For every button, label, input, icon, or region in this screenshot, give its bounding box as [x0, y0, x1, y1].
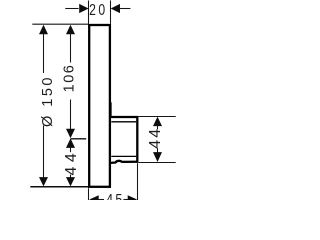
- node: dim 45 left arrowhead: [89, 195, 98, 204]
- plate right edge small step: [110, 102, 112, 116]
- wire: top-left extension line above plate (x=89): [88, 1, 90, 24]
- node: dim 44 left top arrowhead: [66, 138, 75, 148]
- svg-text:44: 44: [147, 127, 164, 149]
- wire: left extension line at plate top (y=24.2): [32, 23, 88, 25]
- svg-text:Ø 150: Ø 150: [40, 75, 56, 127]
- wire: dim 106 line upper segment: [70, 34, 72, 63]
- wire: dim 44 right lower segment: [157, 148, 159, 152]
- svg-text:106: 106: [61, 64, 77, 93]
- wire: dim 106 line lower segment: [70, 100, 72, 130]
- wire: dim 44 left line lower segment: [70, 175, 72, 178]
- wire: bottom extension line below plate (x=88.9): [88, 188, 90, 200]
- wire: dim 44 right upper segment: [157, 126, 159, 130]
- wire: dim 150 line upper segment: [43, 34, 45, 73]
- node: dim 106 top arrowhead: [66, 25, 75, 35]
- handle inner groove line bottom: [111, 155, 136, 157]
- node: dim 44 left bottom arrowhead: [66, 177, 75, 186]
- wire: dim 45 line left segment: [99, 199, 105, 201]
- node: dim 150 bottom arrowhead: [39, 177, 48, 186]
- svg-text:0: 0: [98, 2, 105, 20]
- svg-text:44: 44: [63, 149, 80, 176]
- handle outline (side view): [111, 117, 138, 163]
- node: dim 44 right bottom arrowhead: [153, 152, 162, 162]
- node: dim 20 right arrowhead: [111, 4, 120, 13]
- node: dim 20 left arrowhead: [79, 4, 88, 13]
- wire: right extension line at handle bottom (y=162.1): [139, 162, 176, 164]
- node: dim 45 right arrowhead: [128, 195, 137, 204]
- svg-text:5: 5: [115, 192, 122, 200]
- node: dim 44 right top arrowhead: [153, 117, 162, 127]
- wire: bottom extension line below handle (x=137.4): [137, 163, 139, 200]
- wire: dim 44 left line mid segment: [70, 148, 72, 153]
- wire: extension line at handle centre (y=138.35): [71, 138, 87, 140]
- plate escutcheon outline (side view): [89, 25, 110, 187]
- node: dim 106 bottom arrowhead: [66, 129, 75, 139]
- wire: left extension line at plate bottom (y=186.9): [30, 186, 88, 188]
- svg-text:4: 4: [106, 192, 113, 200]
- handle inner groove line top: [111, 121, 136, 123]
- wire: dim 45 line right segment: [124, 199, 129, 201]
- wire: top-right extension line above plate (x=110): [110, 1, 112, 24]
- node: dim 150 top arrowhead: [39, 25, 48, 35]
- wire: dim 150 line lower segment: [43, 126, 45, 179]
- wire: dim 20 right tail: [119, 8, 130, 10]
- svg-text:2: 2: [89, 2, 96, 20]
- wire: dim 20 left tail: [65, 8, 78, 10]
- wire: right extension line at handle top (y=116.1): [139, 116, 176, 118]
